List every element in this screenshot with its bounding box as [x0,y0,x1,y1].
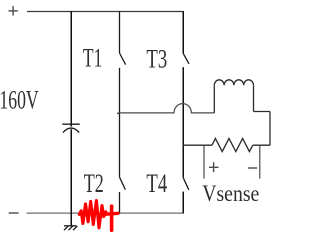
wire sense - stub [259,145,261,178]
svg-text:T3: T3 [146,44,167,73]
inductor L1 (4 humps) [214,80,253,86]
node - (negative supply terminal symbol) [9,212,19,214]
wire T3 drain (top bus to switch T3) [182,11,184,53]
node + (sense positive polarity mark) [209,162,219,172]
wire left bus upper (to capacitor) [70,11,72,127]
svg-text:T1: T1 [83,43,102,72]
transistor T1 (switch blade) [120,53,126,65]
wire T1 drain (top bus to switch T1) [119,11,121,53]
svg-text:Vsense: Vsense [202,181,259,207]
resistor Rsense (zigzag) [212,138,253,151]
wire bottom bus [27,212,184,214]
node - (sense negative polarity mark) [248,167,257,169]
svg-text:T2: T2 [84,169,104,198]
wire bridge midpoint A to load (with crossover hop over T3/T4 leg) [120,104,215,113]
wire T3/T4 midleg (switch T3 to switch T4, passes under crossover arc) [182,67,184,177]
capacitor C1 [62,124,80,132]
wire left bus lower (capacitor to ground/bus) [70,129,72,226]
wire T2 source (switch T2 to bottom bus) [119,192,121,214]
wire T1/T2 midleg (switch T1 to switch T2) [119,68,121,177]
transistor T2 (switch blade) [120,177,126,189]
svg-text:T4: T4 [146,169,167,198]
wire load right vertical [269,112,271,146]
wire resistor left lead to bridge midpoint B [183,144,212,146]
transistor T3 (switch blade) [183,53,189,64]
node + (positive supply terminal symbol) [9,6,18,16]
wire sense + stub [203,145,205,178]
wire resistor right lead [253,144,270,146]
wire T4 source (switch T4 to bottom bus) [182,192,184,214]
node bridge midpoint A (junction tick) [117,112,119,114]
wire inductor right riser [253,85,255,111]
wire inductor left riser [213,85,215,113]
ground (chassis ground symbol) [64,226,77,230]
annotation: hand-drawn red scribble resistor mark over bottom bus [79,201,118,231]
wire top bus [27,11,183,13]
wire inductor to right corner [254,111,271,113]
transistor T4 (switch blade) [183,177,189,190]
svg-text:160V: 160V [0,85,39,114]
